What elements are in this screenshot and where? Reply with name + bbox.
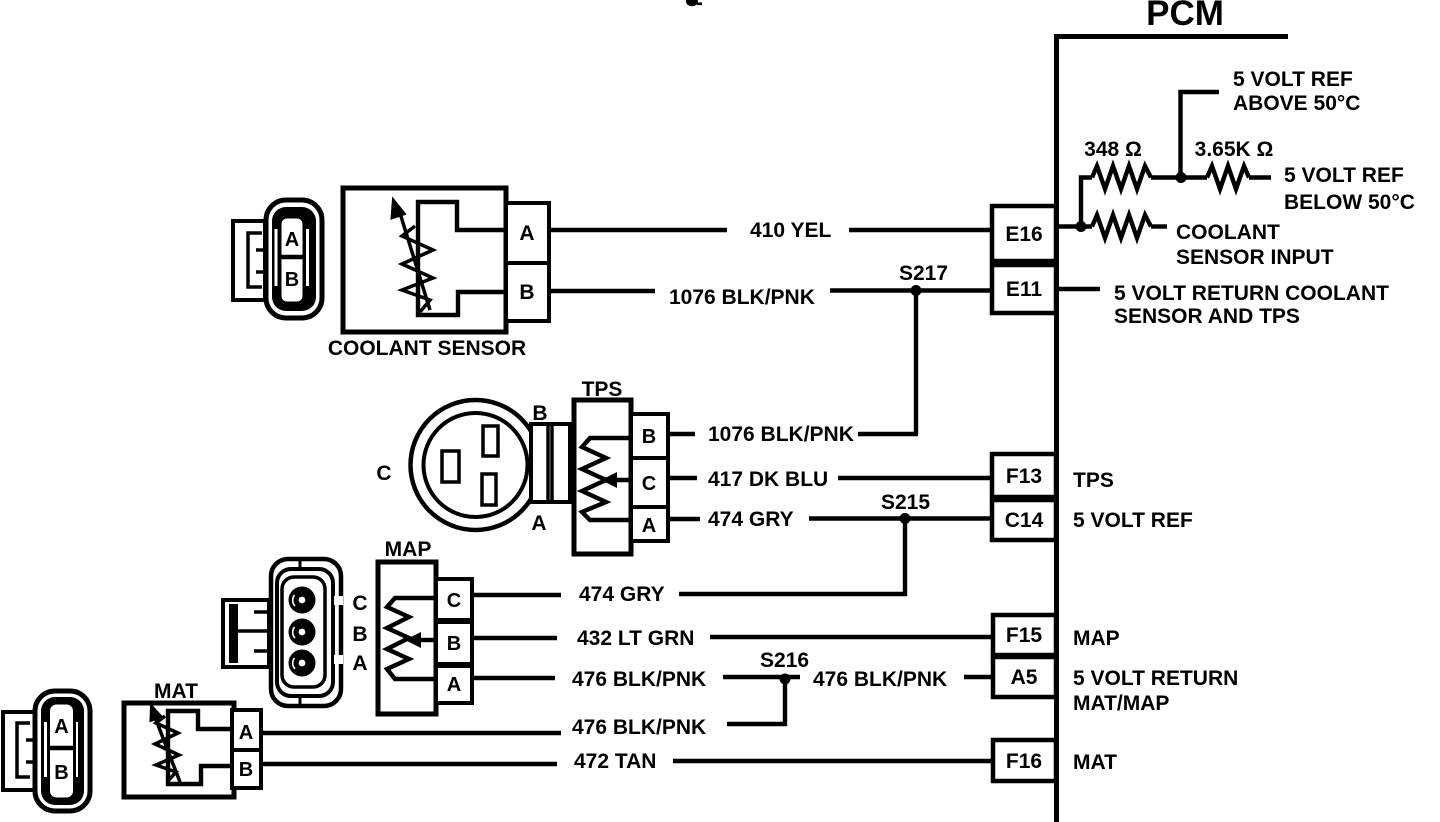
wire S216 vertical and corner (727, 679, 785, 724)
svg-text:S216: S216 (760, 649, 809, 672)
wire to coolant input label (1151, 224, 1167, 228)
junction S216 (780, 674, 791, 685)
MAP potentiometer (387, 598, 436, 679)
pin A5 (993, 657, 1056, 697)
wire 1076 BLK/PNK right (830, 288, 992, 292)
resistor 348 ohm (1092, 166, 1151, 189)
junction dot above E16 net (1176, 172, 1187, 183)
label 5 VOLT REF BELOW 50C (1284, 164, 1415, 214)
svg-text:COOLANT SENSOR: COOLANT SENSOR (328, 337, 526, 360)
coolant sensor box (343, 188, 506, 332)
svg-text:C: C (447, 590, 461, 612)
svg-text:A: A (642, 515, 656, 537)
coolant sensor connector bracket (233, 221, 266, 300)
svg-text:432 LT GRN: 432 LT GRN (577, 627, 694, 650)
coolant pin B (506, 263, 549, 321)
svg-text:MAT: MAT (154, 680, 198, 703)
MAT thermistor (151, 705, 181, 782)
pin E11 (992, 265, 1056, 313)
svg-text:A: A (285, 229, 299, 251)
svg-text:TPS: TPS (1073, 469, 1114, 492)
svg-text:SENSOR AND TPS: SENSOR AND TPS (1114, 305, 1300, 328)
MAP box (378, 562, 436, 714)
svg-text:3.65K Ω: 3.65K Ω (1195, 138, 1274, 161)
svg-text:B: B (532, 402, 547, 425)
svg-text:A: A (447, 674, 461, 696)
svg-text:A: A (519, 222, 534, 245)
wire 474 GRY MAP to S215 (679, 592, 907, 596)
svg-text:S215: S215 (881, 491, 930, 514)
svg-text:B: B (239, 759, 253, 781)
TPS pin B (631, 414, 668, 458)
svg-text:5 VOLT REF: 5 VOLT REF (1233, 68, 1353, 91)
svg-text:1076 BLK/PNK: 1076 BLK/PNK (708, 423, 854, 446)
svg-text:5 VOLT RETURN COOLANT: 5 VOLT RETURN COOLANT (1114, 282, 1389, 305)
svg-text:C: C (352, 592, 367, 615)
svg-text:E16: E16 (1005, 223, 1042, 246)
svg-text:BELOW 50°C: BELOW 50°C (1284, 191, 1415, 214)
svg-text:E11: E11 (1006, 278, 1043, 301)
coolant pin A (506, 203, 549, 263)
resistor 3.65K ohm (1207, 166, 1249, 189)
wire S215 vertical (903, 519, 907, 597)
svg-text:5 VOLT REF: 5 VOLT REF (1073, 509, 1193, 532)
TPS connector key block (531, 424, 570, 502)
wire 410 YEL right (849, 228, 992, 232)
svg-text:410 YEL: 410 YEL (750, 219, 832, 242)
wire E11 to label (1058, 287, 1100, 291)
coolant sensor thermistor (392, 199, 434, 312)
MAT pin B (232, 750, 261, 788)
svg-text:1076 BLK/PNK: 1076 BLK/PNK (669, 286, 815, 309)
wire 476 BLK/PNK MAT left (261, 731, 561, 735)
svg-text:ABOVE 50°C: ABOVE 50°C (1233, 92, 1360, 115)
svg-text:MAP: MAP (385, 538, 432, 561)
label COOLANT SENSOR INPUT (1176, 221, 1334, 269)
svg-text:COOLANT: COOLANT (1176, 221, 1280, 244)
svg-text:B: B (519, 281, 534, 304)
MAP connector body (271, 559, 343, 706)
pin F13 (992, 454, 1056, 497)
wire 476 to A5 (964, 675, 993, 679)
MAP pin B (436, 622, 472, 664)
junction S215 (900, 513, 911, 524)
svg-text:A5: A5 (1011, 666, 1038, 689)
PCM boundary line (1054, 34, 1288, 822)
svg-text:B: B (352, 623, 367, 646)
svg-text:B: B (285, 269, 299, 291)
pin C14 (992, 500, 1056, 540)
label 5 VOLT RETURN MAT/MAP (1073, 667, 1238, 715)
wire 474 GRY MAP stub (472, 593, 561, 597)
wire S217 vertical (914, 291, 918, 435)
svg-text:MAP: MAP (1073, 627, 1120, 650)
svg-text:C14: C14 (1005, 509, 1044, 532)
svg-text:A: A (54, 716, 68, 738)
MAT connector bracket (3, 712, 36, 790)
wire 417 DK BLU right (838, 476, 992, 480)
wire TPS B stub (668, 432, 695, 436)
svg-text:SENSOR INPUT: SENSOR INPUT (1176, 246, 1334, 269)
node 5 VOLT REF ABOVE 50C (corner wire) (1181, 92, 1220, 178)
wire 410 YEL left (549, 228, 727, 232)
MAP pin C (436, 579, 472, 620)
svg-text:A: A (239, 722, 253, 744)
svg-text:B: B (642, 426, 656, 448)
svg-text:B: B (54, 762, 68, 784)
wire 476 BLK/PNK MAP stub (472, 676, 555, 680)
svg-text:F13: F13 (1006, 465, 1042, 488)
MAP connector pin circle A (289, 650, 316, 677)
svg-text:348 Ω: 348 Ω (1084, 138, 1142, 161)
svg-text:MAT: MAT (1073, 751, 1117, 774)
TPS pin C (631, 458, 668, 507)
wire 432 LT GRN stub (472, 636, 557, 640)
svg-text:A: A (352, 652, 367, 675)
svg-text:476 BLK/PNK: 476 BLK/PNK (572, 716, 706, 739)
TPS connector circle (411, 400, 541, 530)
svg-text:F16: F16 (1006, 750, 1042, 773)
coolant sensor connector body (266, 200, 322, 318)
svg-text:C: C (376, 462, 391, 485)
MAP pin A (436, 666, 472, 703)
wire 417 DK BLU stub (668, 476, 697, 480)
MAT terminal notch (168, 711, 234, 784)
MAP connector pin circle B (289, 619, 316, 646)
MAT pin A (232, 710, 261, 750)
pin F15 (993, 615, 1056, 655)
MAT box (124, 703, 234, 797)
wire E16 to coolant input resistor (1058, 224, 1092, 228)
TPS pin A (631, 507, 668, 541)
svg-text:MAT/MAP: MAT/MAP (1073, 692, 1169, 715)
pin E16 (992, 206, 1056, 261)
label 5 VOLT RETURN COOLANT SENSOR AND TPS (1114, 282, 1389, 328)
wire 472 TAN left (261, 762, 557, 766)
svg-text:C: C (642, 473, 656, 495)
wire to 5 VOLT REF BELOW (1249, 175, 1271, 179)
wire 474 GRY right (809, 516, 992, 520)
svg-text:476 BLK/PNK: 476 BLK/PNK (813, 668, 947, 691)
wire 432 LT GRN right (710, 635, 992, 639)
svg-text:476 BLK/PNK: 476 BLK/PNK (572, 668, 706, 691)
coolant sensor terminal notch (418, 202, 506, 315)
resistor coolant sensor input (1092, 215, 1151, 238)
wire 476 to S216 (723, 675, 800, 679)
wire 474 GRY stub (668, 517, 700, 521)
wire between resistors (1151, 175, 1207, 179)
svg-text:5 VOLT REF: 5 VOLT REF (1284, 164, 1404, 187)
wire TPS B to S217 (858, 432, 918, 436)
wire E16 to resistors (left leg) (1081, 178, 1092, 227)
junction S217 (911, 285, 922, 296)
wire 1076 BLK/PNK left (549, 289, 655, 293)
svg-text:PCM: PCM (1146, 0, 1224, 33)
MAP connector bracket (223, 600, 269, 667)
label 5 VOLT REF ABOVE 50C (1233, 68, 1360, 115)
svg-text:F15: F15 (1006, 624, 1043, 647)
stray mark top (686, 0, 702, 6)
svg-text:A: A (531, 512, 546, 535)
svg-text:B: B (447, 633, 461, 655)
pin F16 (993, 740, 1056, 781)
wire 472 TAN right (673, 759, 993, 763)
svg-text:5 VOLT RETURN: 5 VOLT RETURN (1073, 667, 1238, 690)
svg-text:472 TAN: 472 TAN (574, 750, 656, 773)
svg-text:474 GRY: 474 GRY (579, 583, 665, 606)
TPS potentiometer (582, 438, 631, 520)
junction dot at E16 (1076, 221, 1087, 232)
svg-text:S217: S217 (899, 262, 948, 285)
svg-text:417 DK BLU: 417 DK BLU (708, 468, 828, 491)
TPS box (574, 400, 631, 554)
MAT connector body (35, 691, 90, 811)
svg-text:474 GRY: 474 GRY (708, 508, 794, 531)
MAP connector pin circle C (289, 587, 316, 614)
